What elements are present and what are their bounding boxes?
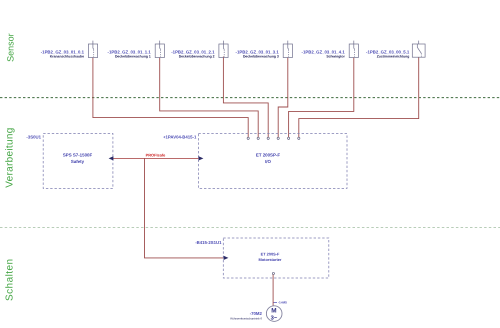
svg-text:3~: 3~ bbox=[271, 314, 278, 321]
svg-text:SPS S7-1500F: SPS S7-1500F bbox=[63, 153, 93, 158]
svg-text:I/O: I/O bbox=[265, 159, 271, 164]
svg-text:+1PAV04-B415-1: +1PAV04-B415-1 bbox=[163, 135, 197, 140]
svg-text:ET 200S-F: ET 200S-F bbox=[261, 252, 280, 257]
svg-text:Rührwerksmischantrieb 6: Rührwerksmischantrieb 6 bbox=[230, 316, 262, 320]
svg-text:-3S0U1: -3S0U1 bbox=[26, 135, 41, 140]
svg-text:Verarbeitung: Verarbeitung bbox=[5, 127, 16, 187]
svg-text:ET 200SP-F: ET 200SP-F bbox=[256, 153, 280, 158]
svg-text:Zustimmeinrichtung: Zustimmeinrichtung bbox=[377, 54, 410, 58]
svg-text:Krananschlusshaube: Krananschlusshaube bbox=[50, 54, 84, 58]
svg-text:Sensor: Sensor bbox=[5, 33, 15, 62]
svg-text:Schalten: Schalten bbox=[4, 258, 15, 301]
svg-text:Deckelüberwachung 2: Deckelüberwachung 2 bbox=[179, 54, 215, 58]
svg-text:Deckelüberwachung 3: Deckelüberwachung 3 bbox=[243, 54, 279, 58]
svg-text:PROFIsafe: PROFIsafe bbox=[146, 153, 167, 158]
svg-text:Schwingtor: Schwingtor bbox=[326, 54, 345, 58]
svg-text:Safety: Safety bbox=[71, 159, 85, 164]
svg-text:-1=M5: -1=M5 bbox=[278, 301, 287, 305]
svg-text:Deckelüberwachung 1: Deckelüberwachung 1 bbox=[115, 54, 151, 58]
svg-text:M: M bbox=[271, 307, 276, 314]
svg-text:-B415-2S1U1: -B415-2S1U1 bbox=[195, 240, 222, 245]
svg-text:Motorstarter: Motorstarter bbox=[259, 257, 282, 262]
